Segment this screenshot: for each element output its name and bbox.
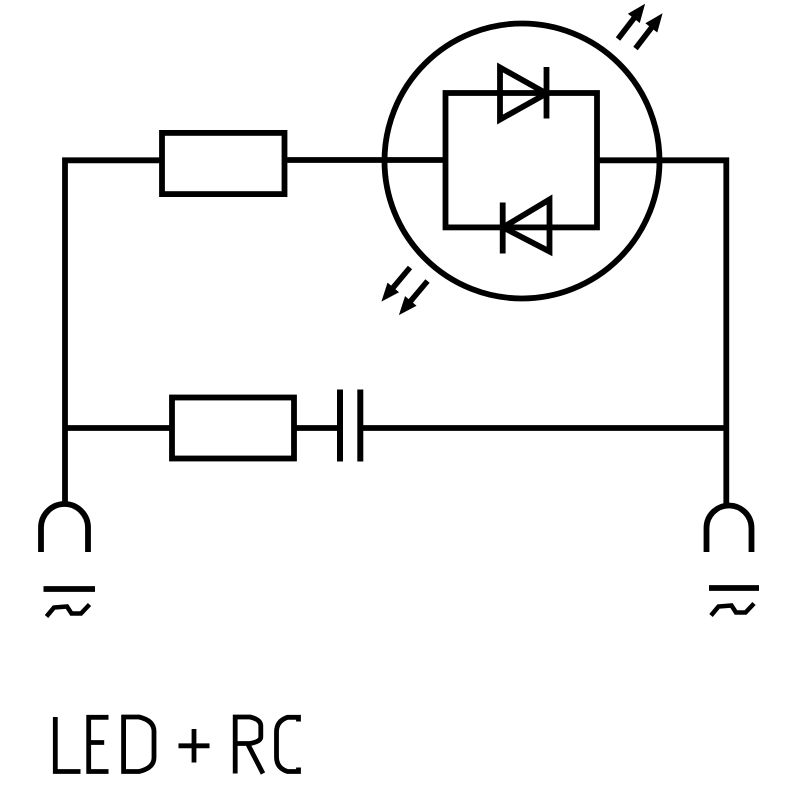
AC bar left bbox=[44, 586, 96, 592]
wire left branch: top horizontal and left vertical bbox=[65, 160, 162, 503]
LED housing circle bbox=[385, 24, 660, 299]
LED inner box bbox=[446, 93, 598, 227]
wire capacitor to right vertical bbox=[363, 425, 726, 431]
LED diode D2 triangle (lower, pointing left) bbox=[503, 200, 550, 252]
terminal right (socket contact) bbox=[707, 506, 752, 553]
label letter R bbox=[235, 717, 263, 774]
light arrow 1 (top right) bbox=[612, 0, 651, 44]
label plus sign bbox=[179, 729, 210, 763]
resistor R2 bbox=[172, 398, 294, 459]
AC tilde right bbox=[711, 604, 754, 616]
terminal left (socket contact) bbox=[41, 504, 88, 552]
label letter D bbox=[124, 717, 154, 772]
label letter E bbox=[89, 717, 109, 771]
wire R2 to capacitor bbox=[294, 425, 340, 431]
wire R1 to LED box bbox=[284, 157, 446, 163]
label letter L bbox=[55, 717, 80, 772]
wire bottom left to R2 bbox=[65, 425, 172, 431]
wire LED box to right vertical bbox=[597, 160, 726, 503]
LED diode D1 cathode bar bbox=[544, 67, 550, 119]
capacitor C1 left plate bbox=[337, 390, 343, 462]
label letter C bbox=[277, 717, 299, 771]
capacitor C1 right plate bbox=[357, 390, 363, 462]
LED diode D1 triangle (upper, pointing right) bbox=[500, 68, 547, 120]
resistor R1 bbox=[162, 133, 285, 194]
LED diode D2 cathode bar bbox=[500, 203, 506, 254]
light arrow 4 (bottom left) bbox=[393, 276, 433, 320]
AC tilde left bbox=[47, 605, 90, 617]
AC bar right bbox=[709, 585, 759, 591]
light arrow 3 (bottom left) bbox=[376, 263, 416, 307]
light arrow 2 (top right) bbox=[630, 9, 669, 53]
